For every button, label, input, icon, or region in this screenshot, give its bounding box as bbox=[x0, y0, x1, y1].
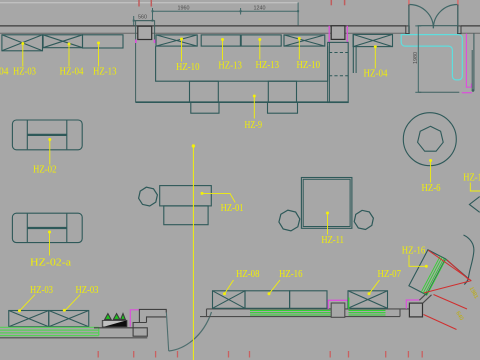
desk top box HZ-13 left bbox=[201, 35, 240, 46]
sofa HZ-02 bbox=[12, 120, 82, 150]
magenta line right pier b bbox=[346, 26, 348, 44]
svg-text:HZ-16: HZ-16 bbox=[279, 268, 303, 280]
cabinet HZ-03 top left with X bbox=[2, 35, 43, 51]
counter connector quad bbox=[419, 292, 431, 304]
desk return dashed shelf b bbox=[329, 75, 348, 77]
label HZ-16 right bbox=[402, 245, 428, 268]
counter box HZ-08 with X bbox=[213, 291, 246, 309]
desk chair right back bbox=[268, 102, 298, 113]
magenta stub bbox=[462, 92, 472, 94]
column pier left bbox=[138, 26, 152, 39]
magenta dot left pier a bbox=[135, 40, 137, 43]
stool octagon HZ-01 bbox=[139, 187, 158, 206]
svg-text:HZ-07: HZ-07 bbox=[378, 268, 402, 280]
wall pilaster lines below HZ-04 box bbox=[352, 35, 354, 73]
magenta line right pier a bbox=[328, 26, 330, 44]
cabinet HZ-04 top left with X bbox=[43, 35, 82, 48]
red axis dash bbox=[138, 0, 140, 7]
round table HZ-6 inner heptagon bbox=[418, 126, 444, 151]
desk right return cabinet bbox=[328, 42, 349, 102]
svg-text:HZ-16: HZ-16 bbox=[402, 245, 426, 257]
desk top box HZ-10 left with X bbox=[156, 35, 197, 46]
svg-text:HZ-04: HZ-04 bbox=[60, 66, 84, 78]
label HZ-04 right bbox=[364, 45, 388, 79]
wall stub line bbox=[418, 91, 459, 93]
table HZ-11 outer bbox=[301, 178, 352, 229]
svg-text:HZ-02: HZ-02 bbox=[33, 164, 57, 176]
svg-text:HZ-10: HZ-10 bbox=[176, 61, 200, 73]
label HZ-9 bbox=[245, 95, 263, 132]
pier side line right bbox=[154, 20, 156, 39]
green mat left bbox=[250, 310, 330, 315]
label HZ-08 bbox=[223, 268, 260, 295]
table HZ-11 inner bbox=[303, 179, 350, 226]
red dimension lines angled bbox=[424, 250, 472, 329]
bottom counter line b bbox=[207, 316, 401, 318]
pier side line left bbox=[135, 20, 137, 102]
svg-text:HZ-03: HZ-03 bbox=[13, 66, 36, 78]
label HZ-01 bbox=[201, 192, 244, 214]
dimension line 1960/1240 bbox=[153, 3, 299, 26]
triangle plant b bbox=[113, 314, 119, 320]
svg-text:HZ-10: HZ-10 bbox=[297, 59, 321, 71]
magenta dot left pier b bbox=[154, 40, 156, 43]
svg-text:HZ-08: HZ-08 bbox=[236, 268, 260, 280]
door jamb right bbox=[458, 26, 461, 34]
desk top box HZ-10 right with X bbox=[284, 35, 325, 46]
round table HZ-6 bbox=[403, 113, 456, 166]
label HZ-11 bbox=[321, 212, 344, 247]
magenta counter gap line bbox=[328, 300, 348, 309]
ramp outline bbox=[102, 320, 127, 327]
wall pilaster line b bbox=[355, 47, 357, 73]
label HZ-16 bottom bbox=[268, 268, 303, 295]
triangle plant c bbox=[121, 314, 126, 320]
label HZ-6 bbox=[422, 159, 441, 194]
door swing arc left bbox=[410, 5, 434, 29]
red axis dash bbox=[408, 0, 410, 6]
svg-text:1240: 1240 bbox=[254, 6, 266, 12]
desk return dashed shelf a bbox=[329, 52, 348, 54]
label HZ-04 top bbox=[60, 43, 84, 78]
svg-text:HZ-13: HZ-13 bbox=[256, 59, 280, 71]
red axis dash bbox=[457, 0, 459, 6]
shelf HZ-13 top left bbox=[83, 35, 124, 48]
counter box plain bbox=[290, 291, 327, 309]
chair octagon right of HZ-11 bbox=[353, 209, 374, 230]
red axis dash bbox=[330, 0, 332, 5]
pier top tie line bbox=[136, 20, 155, 22]
svg-text:HZ-04: HZ-04 bbox=[364, 68, 388, 80]
chair octagon left of HZ-11 bbox=[278, 209, 302, 233]
corner pier bottom right bbox=[409, 303, 422, 317]
door jamb left bbox=[406, 26, 409, 34]
svg-text:HZ-13: HZ-13 bbox=[93, 66, 117, 78]
leaf straight edge bbox=[446, 259, 469, 279]
wall top line right of door bbox=[461, 25, 480, 27]
dimension tick dots bbox=[133, 10, 299, 21]
dimension 1980 vertical bbox=[415, 26, 421, 92]
door swing arc right bbox=[433, 5, 457, 29]
svg-text:HZ-03: HZ-03 bbox=[76, 284, 99, 296]
sofa HZ-02-a bbox=[12, 213, 82, 242]
desk front counter line bbox=[136, 101, 349, 103]
svg-text:HZ-01: HZ-01 bbox=[221, 202, 244, 214]
counter box HZ-16 bbox=[245, 291, 290, 309]
label HZ-07 bbox=[368, 268, 402, 295]
yellow setting-out polyline bbox=[192, 144, 195, 360]
svg-text:HZ-02-a: HZ-02-a bbox=[30, 257, 71, 269]
armchair HZ-01 body bbox=[160, 186, 212, 206]
svg-text:1980: 1980 bbox=[413, 52, 419, 64]
stair step lines bbox=[94, 309, 166, 336]
floor lower edge line bbox=[0, 337, 147, 339]
counter left end bbox=[200, 309, 207, 317]
svg-text:HZ-12: HZ-12 bbox=[463, 172, 480, 184]
counter box HZ-07 with X bbox=[348, 291, 388, 309]
magenta pipe right of door bbox=[466, 34, 471, 88]
desk chair left back bbox=[191, 102, 219, 113]
cabinet HZ-03 bottom a with X bbox=[9, 311, 49, 327]
cabinet HZ-04 right with X bbox=[353, 34, 392, 46]
wall return vertical a bbox=[471, 50, 473, 91]
ramp light half bbox=[104, 320, 127, 326]
green mat right bbox=[349, 298, 386, 316]
svg-text:HZ-03: HZ-03 bbox=[30, 284, 53, 296]
grid line top bbox=[0, 2, 298, 4]
label HZ-02 bbox=[33, 138, 57, 176]
svg-text:HZ-13: HZ-13 bbox=[218, 60, 242, 72]
red floor ticks bbox=[98, 351, 422, 358]
armchair HZ-01 seat bbox=[164, 206, 208, 225]
ramp black wedge bbox=[104, 320, 127, 326]
label HZ-03 bottom b bbox=[63, 284, 99, 312]
curved wall opening bbox=[169, 312, 212, 351]
dimension line 560 bbox=[134, 16, 153, 26]
angled cabinet HZ-16 bbox=[409, 250, 446, 295]
partial chevron right edge bbox=[469, 197, 479, 213]
column pier right bbox=[331, 26, 345, 40]
bottom counter line a bbox=[207, 308, 411, 310]
svg-text:1960: 1960 bbox=[178, 6, 190, 12]
magenta riser line bbox=[130, 310, 139, 327]
desk top box HZ-13 right bbox=[241, 35, 281, 46]
partition lean line bbox=[166, 313, 168, 352]
decorative curve top right bbox=[464, 235, 474, 285]
corner counter end box bbox=[399, 309, 401, 317]
triangle plant a bbox=[105, 314, 111, 320]
wall return vertical b bbox=[473, 33, 475, 90]
svg-text:HZ-6: HZ-6 bbox=[422, 182, 441, 194]
reception desk HZ-9 outline bbox=[156, 46, 328, 81]
svg-text:HZ-11: HZ-11 bbox=[321, 234, 344, 246]
red axis dash bbox=[150, 0, 152, 7]
desk right return inner line bbox=[329, 42, 331, 102]
green floor strip lines bottom left bbox=[0, 327, 99, 335]
label HZ-10 desk left bbox=[176, 38, 200, 74]
svg-text:HZ-9: HZ-9 bbox=[245, 119, 263, 131]
svg-text:04: 04 bbox=[0, 66, 9, 78]
door leaf left bbox=[408, 5, 410, 33]
counter notch pier bbox=[331, 303, 345, 317]
wall top line bbox=[0, 25, 406, 27]
angled cabinet green lines bbox=[421, 256, 446, 295]
label HZ-03 top bbox=[13, 42, 36, 78]
label HZ-13 top left bbox=[93, 42, 117, 78]
svg-text:560: 560 bbox=[138, 15, 147, 21]
label HZ-13 desk left bbox=[218, 38, 242, 72]
label HZ-10 desk right bbox=[297, 37, 321, 71]
cyan duct outline bbox=[401, 35, 462, 80]
desk chair left seat bbox=[190, 81, 219, 102]
label HZ-12 clipped right bbox=[463, 172, 480, 192]
desk chair right seat bbox=[268, 81, 296, 102]
wall inner line bbox=[0, 32, 406, 34]
red axis dash bbox=[344, 0, 346, 5]
cabinet HZ-03 bottom b with X bbox=[49, 311, 89, 327]
door leaf right bbox=[457, 5, 459, 33]
wall inner line right of door bbox=[461, 32, 480, 34]
wall return dot bbox=[472, 89, 475, 92]
magenta corner bbox=[406, 300, 419, 309]
label HZ-02-a bbox=[30, 231, 71, 269]
door threshold line bbox=[418, 25, 458, 27]
label HZ-03 bottom a bbox=[18, 284, 53, 312]
label HZ-13 desk right bbox=[256, 38, 280, 71]
